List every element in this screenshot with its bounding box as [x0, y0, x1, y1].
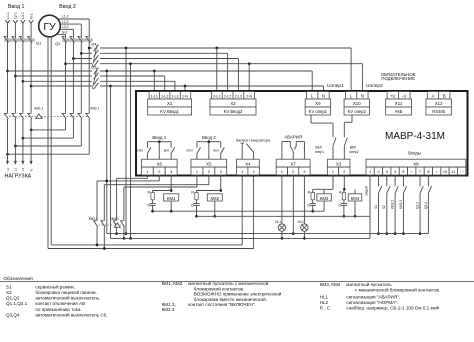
svg-text:Запуск генератора: Запуск генератора	[236, 137, 271, 142]
node: load terminal N arrow	[30, 161, 33, 165]
wire: Q1 output down to KM1.1	[14, 42, 16, 114]
terminal X7 pin 2	[288, 167, 299, 175]
svg-text:X11: X11	[395, 101, 403, 106]
terminal X8 pin 3	[383, 167, 391, 175]
wire: L1-1 sense bus to X1-1 and X9-L	[100, 70, 312, 72]
node: load terminal L1 arrow	[6, 161, 9, 165]
svg-text:Q2: Q2	[55, 41, 61, 46]
wire: tap L1-1 sense down to common bus A	[105, 70, 108, 73]
wire: Q2 output down to KM2.1	[72, 42, 74, 114]
terminal X7 pin 3	[299, 167, 310, 175]
wire: C4 to KM4 return bus	[343, 205, 345, 216]
wire: KM4.1 pole B to bus B	[123, 227, 125, 238]
wire: load feeder down to НАГРУЗКА	[7, 119, 9, 161]
svg-text:по превышению тока: по превышению тока	[35, 307, 80, 312]
contactor coil КМ4	[348, 194, 362, 201]
breaker Q2 pole blade	[85, 36, 88, 38]
svg-text:ВОЗМОЖНО применение электричес: ВОЗМОЖНО применение электрической	[194, 291, 282, 297]
svg-text:10: 10	[443, 169, 448, 174]
svg-text:блокировки вместо механической: блокировки вместо механической.	[194, 296, 267, 302]
wire: X5-2 to KM3.1 pole B	[208, 175, 210, 185]
wire: L2-2 sense bus to X2-2	[100, 52, 228, 54]
svg-text:HL1: HL1	[320, 294, 329, 299]
wire: Q2 output down to KM2.1	[65, 42, 67, 114]
svg-text:-U: -U	[402, 93, 406, 98]
svg-text:КМ3, КМ4: КМ3, КМ4	[320, 282, 341, 287]
terminal X8 pin 1	[366, 167, 374, 175]
svg-text:ГУ: ГУ	[43, 21, 56, 33]
svg-text:Ввод 2: Ввод 2	[59, 4, 76, 10]
wire: input1 L1-1 down to Q1	[7, 23, 9, 39]
svg-text:Q2.1: Q2.1	[424, 202, 428, 209]
wire: KM3.1 pole A to generator bus	[96, 227, 98, 245]
switch S2 (X8 input)	[386, 175, 388, 186]
switch КМ1.3 (X8 input)	[394, 175, 396, 186]
terminal block X9 function row KV опер1	[305, 107, 330, 115]
wire: L2-1 sense bus to X1-2	[100, 75, 165, 77]
wire: input1 L2-1 down to Q1	[14, 23, 16, 39]
svg-text:Q3: Q3	[91, 65, 97, 70]
wire: Q2 output down to KM2.1	[88, 42, 90, 114]
svg-text:Uoпер1: Uoпер1	[327, 83, 344, 89]
svg-text:RS485: RS485	[432, 109, 445, 114]
svg-text:X7: X7	[290, 161, 296, 166]
terminal block X5 label row	[191, 159, 227, 167]
wire: Q1 output down to KM1.1	[7, 42, 9, 114]
svg-text:автоматический выключатель.: автоматический выключатель.	[35, 295, 100, 301]
svg-text:Ввод 2: Ввод 2	[202, 135, 216, 140]
svg-text:опер2: опер2	[349, 150, 358, 154]
wire: N-1 sense bus to X1-4 and X9-N	[100, 85, 324, 87]
svg-text:B: B	[443, 93, 446, 98]
wire: C2 to return bus 2	[196, 205, 198, 216]
svg-text:сигнализация "АВАРИЯ".: сигнализация "АВАРИЯ".	[346, 294, 400, 299]
terminal block X9 label row	[305, 99, 330, 107]
contactor coil КМ2	[207, 194, 222, 201]
wire: tap input1 line to Q3 pole 1	[6, 70, 9, 73]
svg-text:КМ2.3: КМ2.3	[162, 307, 175, 312]
wire: L1-2 down to Q2	[88, 19, 90, 39]
svg-text:X5: X5	[206, 161, 212, 166]
wire: X7-3 to lamp HL2	[303, 175, 305, 224]
svg-text:КМ4: КМ4	[351, 196, 360, 201]
legend separator line	[0, 281, 474, 283]
switch Q1.1 (X8 input)	[419, 175, 421, 186]
svg-text:снаббер, например, СБ-2-1 100: снаббер, например, СБ-2-1 100 Ом 0.1 мкФ	[346, 305, 439, 310]
breaker Q2 pole blade	[77, 36, 80, 38]
wire: N-2 sense bus to X2-4 and X10-N	[100, 63, 362, 65]
svg-text:сервисный режим.: сервисный режим.	[35, 283, 75, 289]
wire: input2 pole joins load bus	[80, 119, 82, 146]
svg-text:Q1: Q1	[36, 40, 42, 45]
terminal block X10 label row	[344, 99, 369, 107]
svg-text:1-L2: 1-L2	[161, 94, 168, 98]
wire: tap L1-2 sense down to common bus A	[125, 47, 128, 50]
circuit breaker Q2 (4-pole) linkage band	[63, 39, 93, 42]
svg-text:L2-1: L2-1	[14, 12, 18, 19]
wire: N-2 down to Q2	[65, 34, 67, 38]
wire: KM4 coil to return bus	[354, 201, 356, 216]
switch КМ2.3 (X8 input)	[402, 175, 404, 186]
svg-text:НАГРУЗКА: НАГРУЗКА	[5, 173, 32, 179]
svg-text:X3: X3	[336, 161, 342, 166]
svg-text:сигнализация "НОРМА".: сигнализация "НОРМА".	[346, 300, 398, 305]
terminal X5 pin 3	[215, 167, 227, 175]
svg-text:автоматический выключатель С6.: автоматический выключатель С6.	[35, 311, 107, 317]
svg-text:ВКЛ: ВКЛ	[315, 146, 321, 150]
terminal X3 pin 2	[339, 167, 350, 175]
wire: L3-2 down to Q2	[72, 29, 74, 39]
svg-text:L3: L3	[21, 168, 25, 172]
terminal X8 pin 9	[433, 167, 441, 175]
wire: X7-1 to lamp HL1	[281, 175, 283, 224]
svg-text:X1: X1	[167, 101, 173, 106]
wire: tap input2 line to Q4 pole 4	[64, 62, 67, 65]
svg-text:Ввод 1: Ввод 1	[8, 4, 25, 10]
terminal block X9 pin cells	[307, 92, 330, 100]
terminal X6 pin 3	[165, 167, 177, 175]
wire: lamp HL2 to bus B	[303, 231, 305, 238]
svg-text:магнитный пускатель с механиче: магнитный пускатель с механической	[188, 280, 269, 286]
svg-text:HL2: HL2	[298, 220, 304, 224]
svg-text:общий: общий	[365, 186, 369, 196]
svg-text:КМ2.1: КМ2.1	[91, 107, 100, 111]
wire: KM1 coil to return bus	[170, 201, 172, 211]
svg-text:N: N	[29, 169, 33, 171]
breaker Q1 pole blade	[19, 36, 22, 38]
breaker Q4 pole blade 1	[94, 45, 99, 52]
wire: Q1 output down to KM1.1	[22, 42, 24, 114]
svg-text:N-2: N-2	[62, 30, 67, 34]
terminal X8 pin 12	[457, 167, 465, 175]
terminal block X1 label row	[148, 99, 192, 107]
breaker Q2 pole blade	[69, 36, 72, 38]
wire: tap input1 line to Q3 pole 4	[30, 85, 33, 88]
svg-text:КМ1.1: КМ1.1	[35, 107, 44, 111]
wire: X3-1 feed to KM3 coil	[332, 175, 334, 189]
wire: ГУ output L3-2 stub	[60, 28, 74, 30]
terminal X4 pin 1	[237, 167, 248, 175]
wire: X5-1 to KM4.1 pole B	[196, 175, 198, 187]
breaker Q1 pole blade	[4, 36, 7, 38]
wire: input1 L3-1 down to Q1	[22, 23, 24, 39]
relay contact ВКЛ опер2 (X10 to X3-2)	[351, 115, 353, 122]
svg-text:ВКЛ: ВКЛ	[350, 146, 356, 150]
wire: C1 to return bus	[152, 205, 154, 211]
svg-text:КМ1: КМ1	[167, 196, 176, 201]
interlock triangle KM1.1	[36, 114, 42, 119]
wire: L3-2 sense bus to X2-3	[100, 58, 238, 60]
wire: L1-2 sense bus to X2 and X10-L	[100, 47, 351, 49]
breaker Q2 pole blade	[62, 36, 65, 38]
breaker Q4 pole blade 3	[94, 55, 99, 62]
wire: KM3 coil top tee	[323, 189, 325, 194]
svg-text:L2-2: L2-2	[62, 20, 69, 24]
svg-text:A: A	[432, 93, 435, 98]
wire: L2-2 down to Q2	[80, 24, 82, 39]
svg-text:X12: X12	[435, 101, 443, 106]
svg-text:HL2: HL2	[320, 300, 329, 305]
svg-text:S2: S2	[6, 290, 12, 295]
terminal X8 pin 8	[424, 167, 432, 175]
circuit breaker Q1 (4-pole) linkage band	[5, 39, 35, 42]
terminal block X10 function row KV опер2	[344, 107, 369, 115]
terminal X4 pin 2	[248, 167, 259, 175]
svg-text:Входы: Входы	[408, 150, 420, 155]
svg-text:S1: S1	[6, 284, 12, 289]
device box МАВР-4-31М outline	[136, 91, 468, 176]
node: load terminal L3 arrow	[21, 161, 24, 165]
svg-text:R: R	[339, 191, 342, 195]
wire: KM4 coil top tee	[354, 189, 356, 194]
svg-text:2-N: 2-N	[246, 94, 252, 98]
node: load terminal L2 arrow	[14, 161, 17, 165]
wire: input2 pole joins load bus	[65, 119, 67, 130]
contactor coil КМ1	[164, 194, 179, 201]
svg-text:блокировка лицевой панели.: блокировка лицевой панели.	[35, 289, 96, 295]
svg-text:L3-2: L3-2	[62, 25, 69, 29]
terminal block X11 function row АКБ	[386, 107, 412, 115]
svg-text:+U: +U	[390, 93, 395, 98]
wire: load feeder down to НАГРУЗКА	[14, 119, 16, 161]
svg-text:R: R	[191, 191, 194, 195]
wire: tap input2 line to Q4 pole 1	[88, 47, 91, 50]
svg-text:КМ1.3: КМ1.3	[391, 200, 395, 209]
breaker Q4 pole blade 2	[94, 50, 99, 57]
breaker Q1 pole blade	[27, 36, 30, 38]
svg-text:КМ2: КМ2	[211, 196, 220, 201]
wire: X3-2 feed to KM4 coil	[343, 175, 345, 189]
wire: X6-1 to KM4.1 pole A	[146, 175, 148, 178]
svg-text:откл: откл	[186, 149, 193, 153]
svg-text:1-L1: 1-L1	[151, 94, 158, 98]
wire: bus B (lamp return)	[111, 237, 371, 239]
wire: tap input2 line to Q4 pole 3	[72, 57, 75, 60]
terminal block X3 label row	[327, 159, 350, 167]
wire: input1 N-1 down to Q1	[30, 23, 32, 39]
wire: generator start control (outer) from ГУ to X4-2	[47, 37, 49, 249]
svg-text:12: 12	[459, 169, 464, 174]
svg-text:R: R	[308, 191, 311, 195]
wire: tap N-1 sense down to bus B	[109, 85, 112, 88]
terminal block X12 function row RS485	[426, 107, 451, 115]
wire: ГУ output L1-2 stub	[58, 18, 89, 20]
terminal X7 pin 1	[276, 167, 287, 175]
breaker Q1 pole blade	[11, 36, 14, 38]
terminal block X11 label row	[386, 99, 412, 107]
wire: X5-3 feed to KM2 coil	[220, 175, 222, 191]
wire: generator start control (inner) from ГУ to X4-1	[50, 37, 52, 245]
terminal X8 pin 11	[449, 167, 457, 175]
svg-text:Ввод 1: Ввод 1	[152, 135, 166, 140]
breaker Q3 pole blade 4	[94, 83, 99, 90]
svg-text:блокировкой контактов.: блокировкой контактов.	[194, 285, 244, 291]
svg-text:X6: X6	[157, 161, 163, 166]
breaker Q3 linkage line	[92, 68, 97, 89]
svg-text:X4: X4	[245, 161, 251, 166]
wire: ГУ output N-2 stub	[56, 33, 65, 35]
svg-text:Q1,Q2: Q1,Q2	[6, 296, 20, 301]
svg-text:откл: откл	[137, 149, 144, 153]
wire: KM2-KM4 coil return bus 2 to X8-1 common	[197, 215, 371, 217]
wire: ГУ output L2-2 stub	[60, 23, 81, 25]
svg-text:KV опер2: KV опер2	[348, 109, 367, 114]
breaker Q4 pole blade 4	[94, 60, 99, 67]
generator set ГУ circle	[39, 15, 61, 37]
svg-text:КМ1, КМ2: КМ1, КМ2	[162, 281, 183, 286]
svg-text:МАВР-4-31М: МАВР-4-31М	[385, 131, 445, 142]
svg-text:АКБ: АКБ	[395, 109, 403, 114]
wire: X7-2 down to common bus A	[292, 175, 294, 234]
svg-text:вкл: вкл	[164, 149, 169, 153]
svg-text:1-N: 1-N	[182, 94, 188, 98]
svg-text:Uoпер2: Uoпер2	[366, 83, 383, 89]
terminal X3 pin 1	[327, 167, 338, 175]
breaker Q3 pole blade 2	[94, 73, 99, 80]
svg-text:вкл: вкл	[214, 149, 219, 153]
svg-text:ПОДКЛЮЧЕНИЕ: ПОДКЛЮЧЕНИЕ	[381, 76, 415, 81]
wire: KM3 coil to return bus	[323, 201, 325, 211]
svg-text:R , С: R , С	[320, 305, 331, 310]
svg-text:с механической блокировкой кон: с механической блокировкой контактов.	[355, 286, 440, 292]
svg-text:N: N	[361, 93, 364, 98]
svg-text:L2: L2	[14, 168, 18, 172]
wire: load feeder down to НАГРУЗКА	[22, 119, 24, 161]
wire: tap input1 line to Q3 pole 3	[22, 80, 25, 83]
terminal block X10 pin cells	[345, 92, 368, 100]
terminal block X1 pin cells	[149, 92, 191, 100]
terminal block X6 label row	[141, 159, 177, 167]
terminal block X2 function row KV Ввод2	[210, 107, 256, 115]
wire: tap input1 line to Q3 pole 2	[14, 75, 17, 78]
svg-text:HL1: HL1	[275, 220, 281, 224]
svg-text:магнитный пускатель: магнитный пускатель	[346, 281, 392, 287]
wire: input2 pole joins load bus	[88, 119, 90, 154]
svg-text:X10: X10	[353, 101, 361, 106]
svg-text:R: R	[148, 191, 151, 195]
breaker Q3 pole blade 3	[94, 78, 99, 85]
terminal block X7 label row	[276, 159, 310, 167]
svg-text:КМ3: КМ3	[320, 196, 329, 201]
wire: lamp HL1 to bus B	[281, 231, 283, 238]
svg-text:1-L3: 1-L3	[171, 94, 178, 98]
svg-text:L1: L1	[6, 168, 10, 172]
terminal X8 pin 4	[391, 167, 399, 175]
wire: input2 pole joins load bus	[72, 119, 74, 138]
svg-text:контакт отключения АВ: контакт отключения АВ	[35, 301, 85, 306]
mechanical link dashed KM3.1-KM4.1	[99, 224, 124, 226]
wire: KM3.1 pole B to generator bus	[103, 227, 105, 248]
svg-text:S2: S2	[382, 205, 386, 209]
svg-text:Q3,Q4: Q3,Q4	[6, 312, 20, 317]
switch S1 (X8 input)	[377, 175, 379, 186]
terminal X8 pin 2	[374, 167, 382, 175]
wire: KM4.1 pole A to common bus	[116, 227, 118, 233]
breaker Q4 linkage line	[92, 45, 97, 67]
wire: tap input2 line to Q4 pole 2	[80, 52, 83, 55]
interlock triangle KM3.1/KM4.1	[114, 223, 120, 228]
svg-text:KV Ввод1: KV Ввод1	[160, 109, 179, 114]
svg-text:L3-1: L3-1	[21, 12, 25, 19]
svg-text:Q1.1,Q2.1: Q1.1,Q2.1	[6, 301, 28, 306]
terminal X6 pin 2	[153, 167, 165, 175]
svg-text:КМ2.3: КМ2.3	[399, 200, 403, 209]
terminal block X2 label row	[210, 99, 256, 107]
wire: C3 to return bus	[312, 205, 314, 211]
svg-text:2-L3: 2-L3	[235, 94, 242, 98]
svg-text:KV опер1: KV опер1	[309, 109, 328, 114]
svg-text:2-L1: 2-L1	[213, 94, 220, 98]
svg-text:2-L2: 2-L2	[224, 94, 231, 98]
svg-text:X8: X8	[413, 161, 419, 166]
switch Q2.1 (X8 input)	[427, 175, 429, 186]
terminal X5 pin 1	[191, 167, 203, 175]
svg-text:контакт состояния "ВКЛЮЧЕН".: контакт состояния "ВКЛЮЧЕН".	[188, 302, 256, 307]
wire: Q1 output down to KM1.1	[30, 42, 32, 114]
mechanical link dashed KM1.1-KM2.1	[9, 115, 88, 117]
wire: L3-1 sense bus to X1-3	[100, 80, 175, 82]
terminal X8 pin 5	[399, 167, 407, 175]
wire: Q2 output down to KM2.1	[80, 42, 82, 114]
contactor coil КМ3	[317, 194, 331, 201]
terminal X8 pin 10	[441, 167, 449, 175]
svg-text:АВАРИЯ: АВАРИЯ	[284, 135, 302, 140]
wire: X6-2 to KM3.1 pole A	[158, 175, 160, 181]
terminal block X2 pin cells	[211, 92, 254, 100]
svg-text:S1: S1	[374, 205, 378, 209]
breaker Q3 pole blade 1	[94, 68, 99, 75]
terminal block X4 label row	[237, 159, 260, 167]
wire: KM2 coil to return bus 2	[214, 201, 216, 216]
terminal block X11 pin cells	[387, 92, 410, 100]
wire: tap N-2 sense down to bus B	[129, 62, 132, 65]
wire: X6-3 feed to KM1 coil	[170, 175, 172, 191]
svg-text:L1-2: L1-2	[62, 15, 69, 19]
terminal block X8 label row	[366, 159, 466, 167]
svg-text:N: N	[322, 93, 325, 98]
terminal block X1 function row KV Ввод1	[148, 107, 192, 115]
svg-text:опер1: опер1	[315, 150, 324, 154]
wire: lamp/switch common bus A	[107, 233, 429, 235]
svg-text:X9: X9	[315, 101, 321, 106]
terminal block X12 pin cells	[427, 92, 450, 100]
svg-text:Q1.1: Q1.1	[415, 202, 419, 209]
terminal X8 pin 7	[416, 167, 424, 175]
wire: load feeder down to НАГРУЗКА	[30, 119, 32, 161]
terminal block X12 label row	[426, 99, 451, 107]
svg-text:Q4: Q4	[91, 41, 97, 46]
svg-text:KV Ввод2: KV Ввод2	[224, 109, 243, 114]
svg-text:L1-1: L1-1	[6, 12, 10, 19]
terminal X5 pin 2	[203, 167, 215, 175]
terminal X6 pin 1	[141, 167, 153, 175]
terminal X8 pin 6	[408, 167, 416, 175]
svg-text:N-1: N-1	[29, 13, 33, 19]
svg-text:X2: X2	[230, 101, 236, 106]
wire: KM1-KM3 coil return bus	[153, 210, 325, 212]
relay contact ВКЛ опер1 (X9 to X3-1)	[310, 115, 312, 123]
